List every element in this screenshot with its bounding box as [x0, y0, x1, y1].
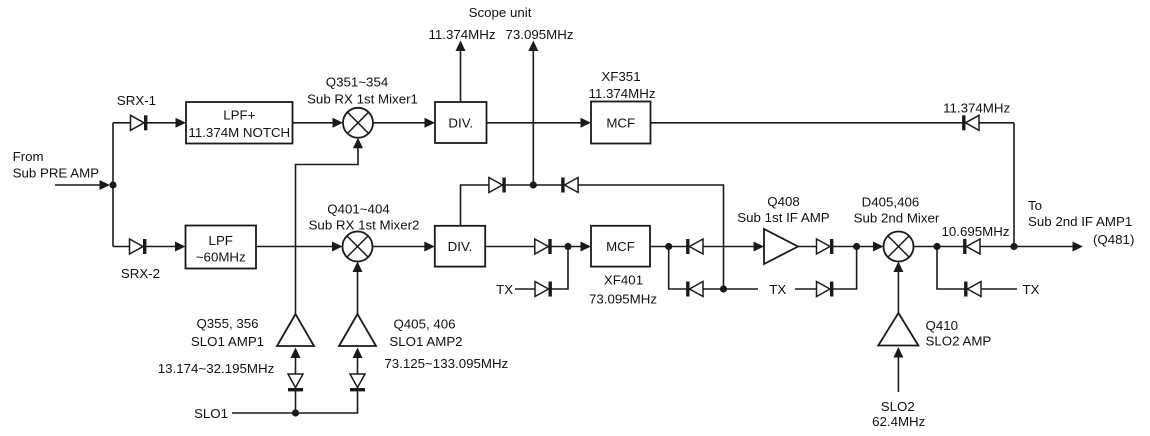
svg-text:Sub 2nd Mixer: Sub 2nd Mixer: [854, 210, 940, 225]
wire mixer1 to DIV: [373, 122, 426, 124]
node after mixer3: [933, 243, 940, 250]
svg-text:DIV.: DIV.: [448, 239, 473, 254]
svg-text:SLO1: SLO1: [194, 406, 228, 421]
svg-text:LPF+: LPF+: [223, 108, 255, 123]
svg-text:62.4MHz: 62.4MHz: [872, 414, 925, 429]
node output junction: [1010, 243, 1017, 250]
svg-text:TX: TX: [1023, 282, 1040, 297]
wire DIV to MCF top: [487, 122, 583, 124]
diode Q408 output: [817, 239, 834, 254]
filter LPF ~60MHz box: [186, 226, 257, 269]
arrow into LPF: [175, 242, 186, 252]
diode 11.374MHz gate: [962, 115, 979, 130]
diode 10.695MHz gate: [963, 239, 980, 254]
wire TX to mixer3 input: [795, 247, 857, 290]
wire SLO1 to AMP1: [295, 350, 297, 413]
node scope tap junction: [530, 181, 537, 188]
amplifier Q405,406 SLO1 AMP2: [339, 314, 376, 346]
svg-text:10.695MHz: 10.695MHz: [942, 224, 1010, 239]
svg-text:Q355, 356: Q355, 356: [196, 316, 258, 331]
arrow scope 73.095MHz up: [528, 41, 538, 52]
svg-text:Q408: Q408: [767, 194, 800, 209]
arrow into DIV: [425, 118, 436, 128]
svg-text:SRX-1: SRX-1: [117, 93, 156, 108]
wire mixer3 LO feed: [897, 270, 899, 313]
wire TX switch at DIV2 output: [515, 247, 568, 290]
diode SRX-1 switch: [131, 115, 148, 130]
diode TX gate 3: [817, 282, 834, 297]
arrow into mixer3: [873, 242, 884, 252]
node SLO1 junction: [292, 409, 299, 416]
wire TX switch chain at MCF2 output: [669, 247, 758, 290]
diode DIV2 output: [535, 239, 552, 254]
svg-text:11.374M NOTCH: 11.374M NOTCH: [188, 125, 290, 140]
arrow up into AMP1: [291, 348, 301, 359]
node TX mid junction: [720, 285, 727, 292]
mixer D405,406 Sub 2nd Mixer: [884, 232, 914, 262]
svg-text:Sub RX 1st Mixer2: Sub RX 1st Mixer2: [309, 218, 420, 233]
wire SRX-2 to LPF: [113, 246, 176, 248]
arrow up into mixer1: [353, 138, 363, 149]
wire MCF top output long: [651, 122, 1015, 124]
svg-text:13.174~32.195MHz: 13.174~32.195MHz: [158, 361, 274, 376]
svg-text:Sub 2nd IF AMP1: Sub 2nd IF AMP1: [1028, 214, 1132, 229]
wire mixer2 LO feed: [357, 270, 359, 314]
svg-text:Scope unit: Scope unit: [469, 5, 532, 20]
svg-text:73.125~133.095MHz: 73.125~133.095MHz: [384, 356, 508, 371]
wire mixer1 LO feed: [296, 146, 359, 314]
arrow up into AMP2: [353, 348, 363, 359]
svg-text:~60MHz: ~60MHz: [196, 250, 246, 265]
svg-text:SLO2: SLO2: [881, 399, 915, 414]
amplifier Q408 Sub 1st IF AMP: [764, 229, 798, 264]
wire LPF to mixer2: [256, 246, 333, 248]
wire LPF+ to mixer1: [293, 122, 335, 124]
diode TX gate 4: [964, 282, 981, 297]
wire input from Sub PRE AMP: [55, 184, 101, 186]
wire TX switch at mixer3 output: [937, 247, 1017, 290]
svg-text:D405,406: D405,406: [862, 195, 920, 210]
svg-text:Sub RX 1st Mixer1: Sub RX 1st Mixer1: [307, 92, 418, 107]
filter LPF+ 11.374M NOTCH box: [186, 102, 293, 144]
svg-text:11.374MHz: 11.374MHz: [428, 27, 495, 42]
filter MCF XF401 box: [591, 226, 650, 267]
node before MCF2: [564, 243, 571, 250]
amplifier Q410 SLO2 AMP: [878, 313, 918, 346]
arrow into MCF2: [581, 242, 592, 252]
arrow into input node: [100, 180, 111, 190]
svg-text:73.095MHz: 73.095MHz: [506, 27, 574, 42]
svg-text:TX: TX: [496, 282, 513, 297]
svg-text:11.374MHz: 11.374MHz: [588, 86, 655, 101]
svg-text:SLO1 AMP1: SLO1 AMP1: [191, 334, 264, 349]
svg-text:SRX-2: SRX-2: [121, 266, 160, 281]
wire mixer3 to output: [914, 246, 1075, 248]
wire SRX-1 to LPF+: [113, 122, 177, 124]
arrow into Q408: [754, 242, 765, 252]
wire SLO1 input: [232, 392, 358, 414]
svg-text:Q351~354: Q351~354: [326, 75, 388, 90]
svg-text:XF401: XF401: [604, 273, 643, 288]
svg-text:MCF: MCF: [606, 116, 635, 131]
amplifier Q355,356 SLO1 AMP1: [277, 314, 314, 346]
node after MCF2: [665, 243, 672, 250]
svg-text:11.374MHz: 11.374MHz: [943, 101, 1010, 116]
node input junction: [109, 181, 116, 188]
arrow into mixer1: [333, 118, 344, 128]
wire SLO2 to AMP: [897, 350, 899, 392]
wire 11.374MHz drop to output node: [1013, 123, 1015, 247]
mixer U1 Sub RX 1st Mixer1: [343, 108, 373, 138]
diode scope tap right: [561, 178, 578, 193]
wire DIV2 top branch: [461, 185, 724, 289]
arrow up into SLO2 AMP: [893, 347, 903, 358]
diode TX gate 1: [535, 282, 552, 297]
wire SLO1 to AMP2: [357, 350, 359, 392]
svg-text:SLO2 AMP: SLO2 AMP: [926, 333, 992, 348]
wire DIV2 to MCF2: [485, 246, 582, 248]
svg-text:MCF: MCF: [606, 239, 635, 254]
wire scope arrow 2: [532, 48, 534, 185]
arrow up into mixer2: [353, 262, 363, 273]
arrow output right: [1073, 242, 1084, 252]
svg-text:(Q481): (Q481): [1093, 232, 1134, 247]
svg-text:LPF: LPF: [209, 233, 233, 248]
wire mixer2 to DIV2: [373, 246, 427, 248]
svg-text:XF351: XF351: [601, 69, 640, 84]
wire scope arrow 1: [460, 48, 462, 102]
arrow into DIV2: [424, 242, 435, 252]
svg-text:SLO1 AMP2: SLO1 AMP2: [389, 334, 462, 349]
diode SRX-2 switch: [130, 239, 147, 254]
diode SLO1 feed 2: [350, 374, 365, 391]
diode MCF2 output: [686, 239, 703, 254]
wire input branch vertical: [112, 123, 114, 247]
arrow scope 11.374MHz up: [456, 41, 466, 52]
svg-text:TX: TX: [769, 282, 786, 297]
node before mixer3: [853, 243, 860, 250]
svg-text:Q401~404: Q401~404: [327, 202, 389, 217]
wire MCF2 to Q408: [650, 246, 756, 248]
mixer U2 Sub RX 1st Mixer2: [343, 232, 373, 262]
svg-text:DIV.: DIV.: [448, 116, 473, 131]
svg-text:Q405, 406: Q405, 406: [393, 317, 455, 332]
svg-text:Sub PRE AMP: Sub PRE AMP: [13, 166, 100, 181]
divider DIV bottom box: [435, 226, 485, 267]
arrow into LPF+: [176, 118, 187, 128]
wire Q408 to mixer3: [798, 246, 875, 248]
diode TX gate 2: [686, 282, 703, 297]
svg-text:From: From: [13, 149, 44, 164]
diode SLO1 feed 1: [288, 374, 303, 391]
diode scope tap left: [489, 178, 506, 193]
arrow into mixer2: [332, 242, 343, 252]
arrow up into mixer3: [893, 262, 903, 273]
filter MCF XF351 box: [591, 102, 651, 144]
divider DIV top box: [435, 102, 487, 143]
svg-text:Sub 1st IF AMP: Sub 1st IF AMP: [737, 210, 830, 225]
svg-text:73.095MHz: 73.095MHz: [589, 292, 657, 307]
arrow into MCF: [581, 118, 592, 128]
svg-text:Q410: Q410: [926, 318, 959, 333]
svg-text:To: To: [1028, 198, 1042, 213]
